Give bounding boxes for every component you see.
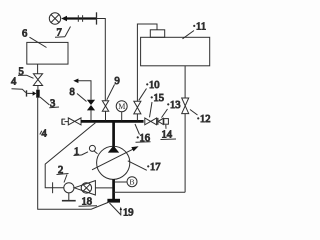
- label 15: [150, 93, 165, 117]
- gauge line tick 1: [77, 15, 79, 22]
- label 3: [40, 97, 59, 110]
- svg-text:4: 4: [11, 76, 17, 87]
- manifold 16 (thick rail): [81, 120, 144, 123]
- label 11: [183, 22, 207, 39]
- svg-text:M: M: [118, 102, 125, 111]
- breather 1 (small circle): [89, 145, 97, 153]
- svg-text:·17: ·17: [147, 162, 161, 173]
- svg-text:·13: ·13: [167, 100, 181, 111]
- wire box6 to valve5: [37, 64, 39, 74]
- label 14: [161, 125, 177, 141]
- svg-text:·11: ·11: [193, 22, 207, 33]
- valve 10: [134, 101, 141, 114]
- hand pump 2 (circle): [64, 183, 74, 193]
- label 18: [79, 197, 98, 208]
- suction diagonal pipe: [45, 123, 95, 188]
- label 5: [18, 66, 34, 78]
- stub to valve 8: [90, 110, 92, 120]
- stub to valve 10: [136, 114, 138, 121]
- svg-text:9: 9: [115, 76, 120, 87]
- wire valve5 to plug3: [37, 86, 39, 90]
- tick on suction line: [52, 182, 54, 193]
- valve 5: [33, 74, 42, 86]
- svg-text:B: B: [129, 178, 134, 187]
- svg-text:·10: ·10: [146, 80, 160, 91]
- tank filler cap: [150, 30, 164, 38]
- label 7: [55, 27, 71, 39]
- label 8: [70, 87, 87, 102]
- coupling 14: [164, 119, 169, 125]
- svg-text:6: 6: [22, 28, 27, 39]
- main pump feed (thick): [112, 122, 115, 147]
- pipe 4 (long left line): [38, 98, 109, 210]
- gauge B line: [115, 181, 127, 183]
- label 19: [110, 203, 134, 219]
- pump variable arrow: [92, 146, 139, 170]
- label 12: [190, 110, 211, 126]
- valve 12: [182, 98, 189, 114]
- valve 8 (closed, filled): [87, 100, 95, 111]
- pump 17 (circle): [97, 146, 130, 179]
- svg-text:4: 4: [42, 129, 48, 140]
- gauge line thick segment: [66, 17, 97, 19]
- label 10: [139, 80, 160, 100]
- svg-text:19: 19: [123, 208, 134, 219]
- valve on manifold left: [68, 118, 81, 125]
- svg-text:8: 8: [70, 87, 75, 98]
- label 4 (pipe): [40, 129, 48, 140]
- arrowhead into gauge: [61, 16, 67, 22]
- gauge line tick 2: [82, 15, 84, 22]
- svg-text:·12: ·12: [197, 114, 211, 125]
- hand pump drive cone: [74, 181, 95, 195]
- gauge line tall tick: [96, 12, 98, 24]
- label 16: [135, 124, 151, 144]
- gauge M (manometer): [116, 101, 127, 112]
- valve 8 vent arrow: [73, 79, 91, 100]
- pump flow triangle: [108, 146, 119, 153]
- flange 19: [107, 199, 120, 203]
- wire hand pump to main line: [95, 187, 112, 189]
- label 13: [162, 100, 181, 118]
- pump outlet (thick): [112, 179, 115, 199]
- check valve 13: [158, 118, 163, 125]
- valve 15: [145, 118, 157, 125]
- stub to gauge M: [121, 112, 123, 121]
- label 2: [57, 165, 69, 182]
- plug 3 (black bar): [36, 90, 40, 98]
- port E on manifold: [62, 119, 68, 125]
- valve 9: [102, 101, 108, 112]
- stub to valve 9: [105, 111, 107, 120]
- pressure gauge 7 (circle with X): [49, 13, 60, 24]
- gauge B: [127, 177, 137, 187]
- tank feed pipe: [137, 24, 157, 101]
- gauge line thin segment: [97, 19, 106, 101]
- tank drain pipe: [184, 66, 186, 98]
- label 17: [128, 161, 161, 173]
- hand pump drain: [62, 193, 76, 201]
- component 6 (box): [27, 42, 68, 64]
- label 9: [107, 76, 120, 100]
- label 1: [74, 146, 89, 157]
- hand pump motor (circle with X) 18: [81, 183, 91, 193]
- port 4 (filling connection): [27, 90, 37, 96]
- label 4 (port): [11, 76, 26, 92]
- return line to tank drain: [114, 191, 186, 193]
- label 6: [22, 28, 47, 47]
- tank 11: [141, 37, 210, 66]
- wire below valve 12: [184, 114, 186, 193]
